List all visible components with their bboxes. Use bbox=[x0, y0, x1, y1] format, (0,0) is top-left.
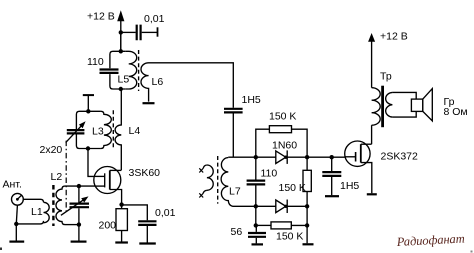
svg-text:+12 В: +12 В bbox=[380, 30, 408, 42]
terminal x lower bbox=[199, 193, 203, 197]
ground under L6 bbox=[143, 102, 155, 104]
node antenna ground bbox=[14, 222, 18, 226]
stray mark bottom right bbox=[471, 251, 473, 253]
svg-text:8 Ом: 8 Ом bbox=[444, 106, 468, 118]
svg-text:150 K: 150 K bbox=[276, 231, 303, 243]
variable capacitor 2x20 lower bbox=[61, 186, 89, 225]
svg-text:3SK60: 3SK60 bbox=[129, 167, 161, 179]
svg-text:0,01: 0,01 bbox=[144, 13, 165, 25]
inductor Lx input winding bbox=[203, 165, 213, 193]
svg-text:150 K: 150 K bbox=[279, 182, 306, 194]
svg-text:150 K: 150 K bbox=[269, 110, 296, 122]
resistor 150K top bbox=[256, 110, 307, 157]
svg-text:L3: L3 bbox=[92, 126, 104, 138]
capacitor 1H5 top bbox=[224, 94, 261, 157]
speaker label bbox=[444, 96, 468, 118]
power +12V label right bbox=[380, 30, 408, 42]
svg-text:1Н5: 1Н5 bbox=[242, 94, 261, 106]
terminal x upper bbox=[199, 168, 203, 172]
node gate junction bbox=[330, 155, 334, 159]
resistor 200 bbox=[99, 205, 128, 242]
ground L2 bbox=[71, 241, 87, 243]
capacitor 110 across L5 bbox=[87, 51, 126, 89]
inductor L6 bbox=[141, 63, 163, 102]
capacitor 110 detector bbox=[247, 157, 278, 206]
node L3 bottom bbox=[86, 146, 90, 150]
resistor 150K bottom bbox=[256, 222, 307, 243]
node drain-supply junction bbox=[119, 30, 123, 34]
node L5 top bbox=[119, 49, 123, 53]
node L3 top bbox=[86, 109, 90, 113]
svg-text:L7: L7 bbox=[229, 186, 241, 198]
power +12V arrow right bbox=[368, 33, 375, 88]
inductor L4 bbox=[115, 89, 140, 170]
svg-text:Тр: Тр bbox=[380, 71, 392, 83]
svg-text:1N60: 1N60 bbox=[272, 139, 297, 151]
svg-text:L5: L5 bbox=[118, 74, 130, 86]
svg-text:56: 56 bbox=[231, 226, 243, 238]
transistor Q2 2SK372 bbox=[345, 141, 418, 193]
node bottom row right bbox=[305, 223, 309, 227]
node second row right bbox=[305, 204, 309, 208]
wire antenna to L1 bbox=[23, 199, 43, 202]
wire L3 to gate2 bbox=[88, 149, 95, 177]
transformer Tp core bbox=[381, 86, 384, 128]
node second row left bbox=[254, 204, 258, 208]
speaker horn bbox=[423, 89, 433, 121]
ground above L3 tank bbox=[83, 95, 94, 111]
wire left rail to bottom row bbox=[255, 206, 257, 225]
wire drain to transformer bbox=[371, 125, 373, 144]
wire L3 tank top rail bbox=[76, 111, 101, 129]
power +12V arrow left bbox=[117, 10, 124, 51]
svg-text:110: 110 bbox=[87, 56, 104, 68]
inductor L2 bbox=[51, 171, 66, 225]
wire L3 tank bottom rail bbox=[76, 135, 101, 149]
node detector left top bbox=[254, 155, 258, 159]
antenna label bbox=[3, 179, 22, 191]
speaker box bbox=[411, 99, 422, 111]
capacitor 0,01 top bbox=[121, 13, 165, 40]
wire L6 to detector bbox=[152, 63, 233, 108]
wire jack shield down bbox=[16, 205, 17, 224]
wire L2 top rail to gate1 bbox=[65, 185, 95, 187]
diode 1N60 lower bbox=[276, 200, 288, 214]
core L5/L6 bbox=[138, 50, 140, 91]
wire L2 bottom rail bbox=[65, 224, 79, 226]
inductor L5 bbox=[118, 51, 137, 89]
svg-text:Ант.: Ант. bbox=[3, 179, 22, 191]
transformer Tp secondary bbox=[386, 92, 417, 117]
svg-text:L1: L1 bbox=[31, 206, 43, 218]
svg-text:L6: L6 bbox=[152, 76, 164, 88]
core L3/L4 bbox=[112, 110, 114, 149]
ground antenna bbox=[9, 241, 24, 243]
core L1/L2 bbox=[52, 185, 54, 226]
inductor L3 bbox=[92, 111, 111, 148]
capacitor 1H5 right bbox=[322, 157, 359, 195]
node bottom row left bbox=[254, 223, 258, 227]
variable capacitor 2x20 upper bbox=[66, 121, 86, 142]
inductor L1 bbox=[31, 202, 49, 222]
node L2 top bbox=[77, 184, 81, 188]
node L5 bottom bbox=[119, 87, 123, 91]
svg-text:0,01: 0,01 bbox=[155, 207, 176, 219]
wire right rail to bottom row bbox=[306, 206, 308, 225]
svg-text:200: 200 bbox=[99, 220, 117, 232]
capacitor 0,01 bottom bbox=[122, 205, 176, 243]
wire right rail ground bbox=[306, 225, 308, 243]
ground under 200 bbox=[115, 241, 128, 243]
inductor L7 bbox=[221, 158, 241, 207]
svg-text:+12 В: +12 В bbox=[87, 11, 115, 23]
svg-text:2x20: 2x20 bbox=[40, 144, 63, 156]
wire detector top row bbox=[228, 156, 344, 158]
node source junction bbox=[119, 202, 123, 206]
antenna jack bbox=[12, 193, 24, 205]
node L2 bottom bbox=[77, 222, 81, 226]
node detector right top bbox=[305, 155, 309, 159]
wire to ground bbox=[15, 224, 17, 241]
power +12V label left bbox=[87, 11, 115, 23]
ground under 1H5 bbox=[325, 195, 339, 197]
svg-text:110: 110 bbox=[261, 168, 278, 180]
transformer Tp label bbox=[380, 71, 392, 83]
transistor Q1 3SK60 bbox=[94, 167, 160, 205]
diode 1N60 upper bbox=[272, 139, 297, 164]
capacitor 56 bbox=[231, 225, 267, 243]
svg-text:L4: L4 bbox=[129, 125, 141, 137]
svg-text:1Н5: 1Н5 bbox=[340, 180, 359, 192]
label 2x20 bbox=[40, 144, 63, 156]
ground under 56 bbox=[252, 243, 264, 245]
transformer Tp primary bbox=[372, 88, 381, 126]
mechanical gang dash-dot line bbox=[65, 141, 67, 212]
svg-text:2SK372: 2SK372 bbox=[381, 151, 419, 163]
core L7 bbox=[217, 156, 219, 204]
wire +12V to L5 tank bbox=[120, 32, 122, 51]
svg-text:L2: L2 bbox=[51, 171, 63, 183]
ground terminal bar right of 0,01 bbox=[157, 27, 159, 36]
wire L2 ground bbox=[78, 225, 80, 241]
ground under 0,01 bbox=[139, 242, 156, 244]
wire L1 bottom rail bbox=[16, 221, 43, 224]
ground right rail bbox=[303, 243, 314, 245]
wire detector second row bbox=[233, 205, 308, 207]
watermark bbox=[395, 232, 465, 250]
ground under 2SK372 bbox=[367, 193, 377, 195]
stray mark bottom left bbox=[0, 248, 2, 251]
resistor 150K middle bbox=[279, 157, 312, 206]
